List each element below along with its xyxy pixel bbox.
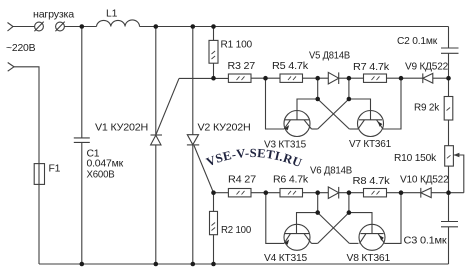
svg-text:R6 4.7k: R6 4.7k <box>273 175 309 186</box>
svg-text:F1: F1 <box>49 164 61 175</box>
svg-text:R1 100: R1 100 <box>221 40 253 51</box>
svg-text:V10 КД522: V10 КД522 <box>400 175 449 186</box>
svg-text:V4 КТ315: V4 КТ315 <box>264 253 307 264</box>
svg-text:V6 Д814В: V6 Д814В <box>310 166 352 177</box>
svg-text:R4 27: R4 27 <box>228 175 256 186</box>
svg-text:R9 2k: R9 2k <box>414 103 440 114</box>
svg-text:V5 Д814В: V5 Д814В <box>309 51 350 62</box>
svg-text:L1: L1 <box>106 9 118 20</box>
svg-text:C3 0.1мк: C3 0.1мк <box>404 236 448 247</box>
svg-text:~220В: ~220В <box>6 43 36 54</box>
svg-text:R3 27: R3 27 <box>228 61 256 72</box>
svg-text:нагрузка: нагрузка <box>33 10 74 21</box>
svg-text:V7 КТ361: V7 КТ361 <box>349 139 391 150</box>
svg-text:X600В: X600В <box>87 170 115 181</box>
svg-text:V2 КУ202Н: V2 КУ202Н <box>198 123 251 134</box>
svg-text:R8 4.7k: R8 4.7k <box>353 176 391 187</box>
svg-text:C2 0.1мк: C2 0.1мк <box>397 36 438 47</box>
svg-text:R7 4.7k: R7 4.7k <box>353 62 390 73</box>
svg-text:0.047мк: 0.047мк <box>87 159 124 170</box>
svg-text:R2 100: R2 100 <box>221 225 251 236</box>
svg-text:V9 КД522: V9 КД522 <box>405 62 448 73</box>
svg-text:R10 150k: R10 150k <box>394 153 437 164</box>
svg-text:V8 КТ361: V8 КТ361 <box>347 253 391 264</box>
svg-text:R5 4.7k: R5 4.7k <box>272 61 309 72</box>
svg-text:V1 КУ202Н: V1 КУ202Н <box>95 123 148 134</box>
